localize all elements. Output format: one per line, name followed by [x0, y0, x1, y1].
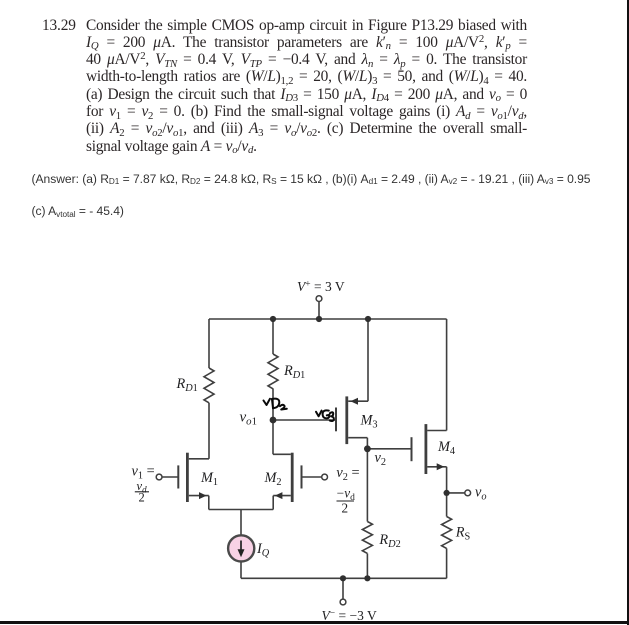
svg-text:RD2: RD2	[378, 532, 400, 550]
svg-text:M1: M1	[200, 470, 218, 488]
svg-text:M2: M2	[264, 470, 282, 488]
svg-text:v1 =: v1 =	[132, 464, 155, 482]
svg-text:vo1: vo1	[240, 410, 257, 428]
svg-text:M3: M3	[360, 413, 378, 431]
svg-text:v2: v2	[375, 450, 387, 468]
svg-text:IQ: IQ	[256, 541, 270, 559]
svg-text:v2 =: v2 =	[336, 465, 359, 483]
svg-text:vo: vo	[475, 485, 487, 503]
svg-text:2: 2	[342, 500, 349, 515]
svg-text:RD1: RD1	[176, 376, 198, 394]
svg-text:M4: M4	[437, 439, 455, 457]
svg-text:2: 2	[139, 491, 145, 505]
svg-text:RD1: RD1	[283, 363, 305, 381]
svg-text:RS: RS	[455, 525, 471, 543]
svg-text:V+ = 3 V: V+ = 3 V	[297, 279, 345, 294]
